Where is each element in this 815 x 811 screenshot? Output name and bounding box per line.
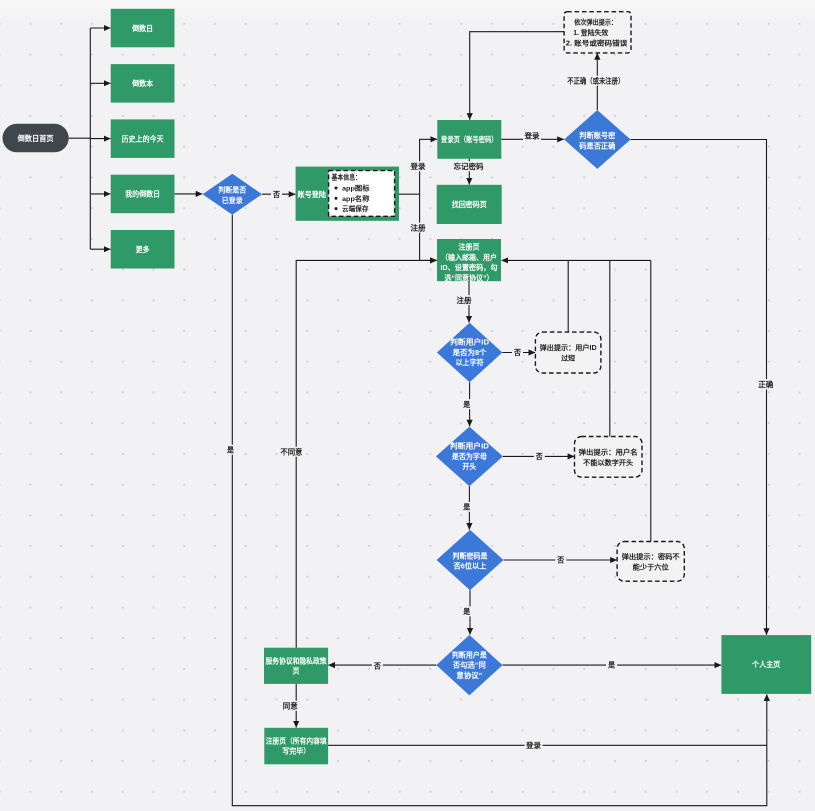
svg-text:（输入邮箱、用户: （输入邮箱、用户 [441,252,497,262]
wire junction down to 注册页 [420,194,437,260]
label 否 [271,189,282,199]
process 我的倒数日 [111,175,175,214]
svg-text:更多: 更多 [136,244,150,254]
note 基本信息 (dashed) [329,171,395,217]
svg-text:依次弹出提示：: 依次弹出提示： [574,18,617,27]
svg-text:服务协议和隐私政策: 服务协议和隐私政策 [266,655,327,665]
svg-text:写完毕）: 写完毕） [282,746,310,756]
svg-text:我的倒数日: 我的倒数日 [125,189,160,199]
wire 弹出提示数字开头 feedback up to 注册页 [609,260,611,436]
wire 是 判断用户ID字数 to 判断用户ID字母开头 [469,382,471,426]
label 登录 (bottom long line) [525,740,543,750]
svg-text:同意: 同意 [283,701,298,711]
label 是 (after D3) [461,606,472,616]
svg-text:过短: 过短 [561,354,575,363]
svg-text:找回密码页: 找回密码页 [452,199,487,209]
process 账号登陆 [296,167,399,221]
svg-text:基本信息：: 基本信息： [331,173,361,182]
svg-text:意协议”: 意协议” [456,670,482,680]
svg-text:倒数本: 倒数本 [131,78,153,88]
label 登录 (into 登录页) [410,161,427,171]
wire menu branch vertical [89,28,91,249]
svg-text:2. 账号或密码错误: 2. 账号或密码错误 [566,38,629,47]
svg-text:否: 否 [513,348,521,357]
process 找回密码页 [437,185,502,224]
svg-text:注册: 注册 [411,222,426,232]
svg-text:是: 是 [607,660,615,670]
decision 判断用户ID是否为8个以上字符 [437,323,502,383]
svg-text:选“同意协议”）: 选“同意协议”） [445,273,494,283]
wire 注册页 to 判断用户ID是否为8个以上字符 [468,281,470,322]
svg-text:否: 否 [373,661,381,670]
svg-text:注册: 注册 [457,295,472,305]
process 登录页（账号密码） [437,120,501,159]
decision 判断账号密码是否正确 [564,110,630,169]
svg-text:码是否正确: 码是否正确 [579,140,615,150]
svg-text:不正确（或未注册）: 不正确（或未注册） [567,76,624,86]
label 是 (left long line) [225,445,236,455]
wire 判断是否已登录 是 long path to 个人主页 (down, bottom, right) [232,215,767,806]
label 是 (after D1) [461,399,472,409]
wire feedback horizontal into 注册页 right [502,259,651,261]
svg-text:判断用户ID: 判断用户ID [450,441,490,451]
decision 判断密码是否6位以上 [437,530,504,590]
label 否 (密码过短) [555,555,566,565]
label 是 (to 个人主页) [606,660,617,670]
wire 我的倒数日 to 判断是否已登录 [175,193,203,195]
svg-text:是否为8个: 是否为8个 [452,347,487,357]
svg-text:个人主页: 个人主页 [751,659,780,669]
wire branch to 倒数日 [90,27,110,29]
svg-text:历史上的今天: 历史上的今天 [122,133,164,143]
svg-text:否: 否 [556,556,564,565]
svg-text:是: 是 [462,606,470,616]
process 注册页（所有内容填写完毕） [264,728,328,765]
svg-text:不同意: 不同意 [280,447,302,457]
svg-text:否: 否 [272,190,280,199]
wire 账号登陆 to junction [399,193,420,195]
svg-text:登录: 登录 [525,740,541,750]
wire 弹出提示密码 feedback up to 注册页 [650,260,652,541]
process 历史上的今天 [111,119,175,157]
label 否 (to 服务协议) [372,661,383,671]
svg-text:登录: 登录 [524,131,540,141]
process 注册页（输入邮箱、用户ID、设置密码，勾选“同意协议”） [437,239,501,283]
terminal 倒数日首页 [3,124,69,153]
svg-text:判断用户是: 判断用户是 [452,649,487,659]
process 个人主页 [721,635,811,694]
svg-text:云端保存: 云端保存 [342,204,369,213]
svg-text:能少于六位: 能少于六位 [633,562,669,571]
svg-text:是: 是 [226,445,234,455]
wire branch to 倒数本 [90,82,110,84]
svg-text:弹出提示：用户ID: 弹出提示：用户ID [540,343,597,352]
wire 登录页 to 找回密码页 [468,159,470,185]
label 是 (after D2) [461,502,472,512]
decision 判断是否已登录 [203,174,262,215]
svg-text:弹出提示：密码不: 弹出提示：密码不 [622,552,680,561]
process 服务协议和隐私政策页 [264,648,328,684]
svg-text:弹出提示：用户名: 弹出提示：用户名 [579,447,638,456]
wire branch to 我的倒数日 [90,193,110,195]
svg-text:账号登陆: 账号登陆 [298,189,327,199]
decision 判断用户ID是否为字母开头 [436,427,503,487]
svg-text:app名称: app名称 [342,194,370,203]
svg-text:判断是否: 判断是否 [218,185,246,195]
svg-text:判断用户ID: 判断用户ID [450,337,490,347]
wire 服务协议 同意 to 注册页完毕 [295,684,297,728]
svg-text:注册页（所有内容填: 注册页（所有内容填 [266,735,327,745]
svg-text:是: 是 [462,502,470,512]
svg-text:app图标: app图标 [342,184,370,193]
wire 注册页完毕 登录 to 个人主页 bottom [328,744,767,746]
label 同意 [282,701,300,711]
wire branch to 更多 [90,248,110,250]
process 倒数日 [111,9,175,48]
svg-text:开头: 开头 [462,461,476,471]
wire 弹出提示用户ID过短 feedback up to 注册页 [567,260,569,332]
svg-text:倒数日: 倒数日 [131,23,153,33]
wire 依次弹出提示 to 登录页 top [470,32,564,120]
decision 判断用户是否勾选“同意协议” [436,635,502,696]
svg-text:否: 否 [535,452,543,461]
wire 判断密码位数 否 to 弹出提示密码不能少于六位 [504,559,617,561]
svg-text:是否为字母: 是否为字母 [451,451,487,461]
svg-text:页: 页 [293,667,300,676]
process 更多 [111,230,175,269]
svg-text:倒数日首页: 倒数日首页 [17,133,54,143]
label 不正确（或未注册） [566,76,627,86]
label 注册 (into 注册页) [410,222,427,232]
label 登录 (to password check) [523,131,541,141]
label 注册 (below 注册页) [456,295,473,305]
svg-text:不能以数字开头: 不能以数字开头 [583,458,633,467]
label 正确 [758,379,775,390]
wire 判断勾选 否 to 服务协议和隐私政策页 [328,664,436,666]
label 否 (数字开头) [534,451,545,461]
svg-text:ID、设置密码，勾: ID、设置密码，勾 [441,262,498,272]
wire junction up to 登录页 [420,139,437,194]
wire 判断字母开头 否 to 弹出提示用户名不能以数字开头 [503,455,574,457]
wire 判断账号密码是否正确 正确 to 个人主页 top [631,140,767,635]
label 否 (ID过短) [512,347,523,357]
label 忘记密码 [452,161,485,171]
note 依次弹出提示 (dashed) [564,12,631,53]
wire 服务协议 不同意 feedback up to 注册页 [296,260,437,647]
svg-text:登录页（账号密码）: 登录页（账号密码） [440,134,497,144]
wire 是 判断密码位数 to 判断勾选协议 [469,590,471,634]
svg-text:是: 是 [462,399,470,409]
note 弹出提示：密码不能少于六位 (dashed) [617,542,684,582]
svg-text:注册页: 注册页 [459,242,480,252]
label 不同意 [279,447,304,457]
note 弹出提示：用户ID过短 (dashed) [535,332,601,373]
wire 倒数日首页 to menu branch [69,137,91,139]
svg-text:否勾选“同: 否勾选“同 [452,660,486,670]
svg-text:忘记密码: 忘记密码 [454,161,484,171]
wire 登录页 to 判断账号密码是否正确 [501,138,564,140]
svg-text:以上字符: 以上字符 [456,357,484,367]
wire 是 判断字母开头 to 判断密码位数 [468,486,470,529]
svg-text:判断账号密: 判断账号密 [579,130,615,140]
svg-text:否6位以上: 否6位以上 [453,561,487,571]
svg-text:正确: 正确 [758,379,773,389]
wire branch to 历史上的今天 [90,138,110,140]
wire 判断账号密码是否正确 不正确 to 依次弹出提示 [596,53,598,110]
wire 判断勾选 是 to 个人主页 [503,664,722,666]
note 弹出提示：用户名不能以数字开头 (dashed) [575,437,643,478]
wire 判断用户ID字数 否 to 弹出提示用户ID过短 [502,352,535,354]
svg-text:1. 登陆失效: 1. 登陆失效 [573,28,609,37]
process 倒数本 [111,64,175,103]
wire 判断是否已登录 否 to 账号登陆 [262,193,295,195]
svg-text:已登录: 已登录 [222,195,243,205]
svg-text:登录: 登录 [410,161,426,171]
svg-text:判断密码是: 判断密码是 [453,550,488,560]
